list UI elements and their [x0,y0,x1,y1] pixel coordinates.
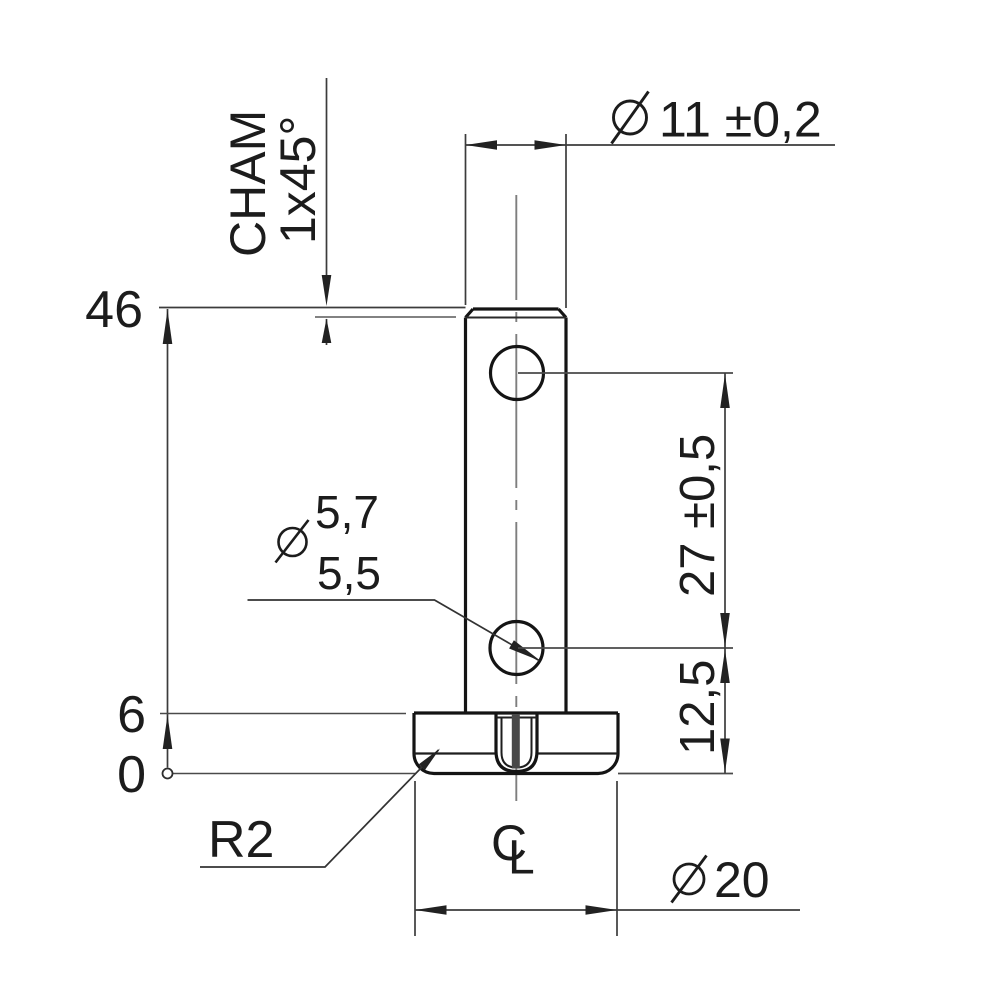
dim 46 vertical [167,309,169,768]
R2 leader arrow [419,749,440,771]
dim 27 arrows [720,374,730,647]
spring pin slot outer U [496,714,537,772]
centerline vertical axis [515,195,517,801]
svg-text:12,5: 12,5 [671,660,725,755]
part outline: pin body [466,309,567,713]
R2 leader line [200,750,439,867]
hole leader arrow [509,640,541,661]
dim 12,5 arrows [720,650,730,773]
spring pin slot inner U [502,718,532,768]
dim 0 origin circle [163,769,173,779]
dim Ø11 diameter symbol [612,92,649,144]
dim 27 vertical line [724,373,726,774]
upper hole [491,347,544,400]
dim Ø11 extension lines [466,134,567,308]
svg-text:R2: R2 [208,811,274,869]
svg-text:20: 20 [714,852,770,908]
dim Ø20 line [415,909,800,911]
chamfer edge extension (grey) [315,316,456,318]
dim Ø20 diameter symbol [672,856,707,903]
dim Ø20 extension lines [415,781,617,936]
flange outline [414,713,618,774]
svg-text:L: L [508,832,535,885]
connector flange bottom right [618,773,733,775]
svg-text:1x45°: 1x45° [270,116,326,244]
dim Ø20 arrows [415,905,617,915]
svg-text:5,7: 5,7 [315,486,379,538]
svg-text:5,5: 5,5 [317,547,381,599]
flange fillet tangent line [414,752,618,754]
dim 46 line [159,307,466,309]
dim 0 line [173,773,416,775]
svg-text:27 ±0,5: 27 ±0,5 [671,434,725,597]
svg-text:11 ±0,2: 11 ±0,2 [659,92,822,148]
svg-text:6: 6 [117,686,146,744]
svg-text:0: 0 [117,746,146,804]
connector upper hole centre [518,372,733,374]
connector lower hole centre [518,647,733,649]
chamfer base edge [466,317,567,319]
hole leader line [248,600,540,661]
dim Ø11 arrows [466,140,567,150]
dim 6 line [160,713,406,715]
spring pin top edge [496,717,537,719]
CHAM leader line [326,78,328,345]
svg-text:46: 46 [85,281,143,339]
dim 46 arrow [163,310,173,344]
spring pin center slit [512,714,520,769]
CHAM arrows [322,275,332,343]
dim 6 arrow [163,715,173,749]
svg-text:CHAM: CHAM [220,110,276,257]
dim hole diameter label Ø5,7/5,5 symbol [276,520,309,563]
dim Ø11 line [466,144,836,146]
lower hole [490,622,543,675]
